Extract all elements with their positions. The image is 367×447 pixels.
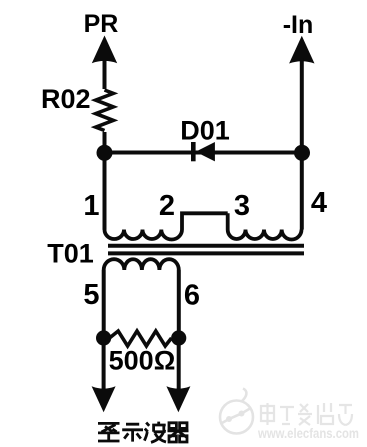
svg-text:4: 4 [311, 187, 327, 219]
label 至示波器 (to oscilloscope), drawn glyphs [98, 422, 189, 443]
arrow to PR [92, 36, 117, 64]
arrow to -In [289, 36, 314, 64]
watermark logo circle [220, 389, 253, 434]
watermark logo dots [226, 411, 245, 423]
svg-text:6: 6 [184, 280, 200, 312]
svg-text:2: 2 [159, 190, 175, 222]
glyph 至 [98, 423, 120, 441]
transformer T01 core [108, 246, 304, 254]
svg-text:R02: R02 [41, 84, 91, 114]
diode D01 [191, 142, 215, 161]
wire horizontal left junction to right junction [105, 151, 303, 155]
svg-text:500Ω: 500Ω [109, 346, 176, 376]
svg-text:D01: D01 [180, 116, 230, 146]
wire to oscilloscope right [177, 338, 181, 398]
junction secondary left [96, 330, 111, 345]
transformer T01 primary winding left (pins 1-2) [105, 230, 183, 240]
transformer T01 secondary winding (pins 5-6) [104, 259, 179, 270]
svg-text:www.elecfans.com: www.elecfans.com [257, 425, 359, 441]
junction left node [97, 145, 113, 161]
wire pin 5 lead [102, 270, 106, 338]
resistor 500 ohm [110, 331, 172, 346]
glyph 波 [144, 422, 166, 443]
junction secondary right [171, 330, 186, 345]
resistor R02 [96, 90, 114, 131]
glyph 器 [168, 423, 189, 442]
wire to oscilloscope left [102, 338, 106, 398]
svg-text:3: 3 [234, 190, 250, 222]
wire R02 to left junction and down to pin 1 [103, 132, 107, 230]
svg-text:-In: -In [283, 11, 314, 39]
svg-text:T01: T01 [47, 239, 94, 269]
arrow to oscilloscope left [92, 386, 116, 412]
wire PR arrow shaft [103, 57, 107, 89]
wire pin 6 lead [177, 270, 181, 338]
svg-text:5: 5 [83, 279, 99, 311]
junction right node [294, 145, 310, 161]
glyph 示 [122, 424, 143, 441]
watermark text 电子发烧友 [261, 403, 352, 425]
wire -In vertical (pin 4 lead) [300, 58, 304, 230]
svg-text:1: 1 [83, 190, 99, 222]
svg-text:PR: PR [84, 10, 119, 38]
transformer T01 primary winding right (pins 3-4) [228, 230, 302, 240]
arrow to oscilloscope right [166, 386, 190, 412]
transformer T01 center tap bridge (pins 2-3) [182, 213, 228, 229]
